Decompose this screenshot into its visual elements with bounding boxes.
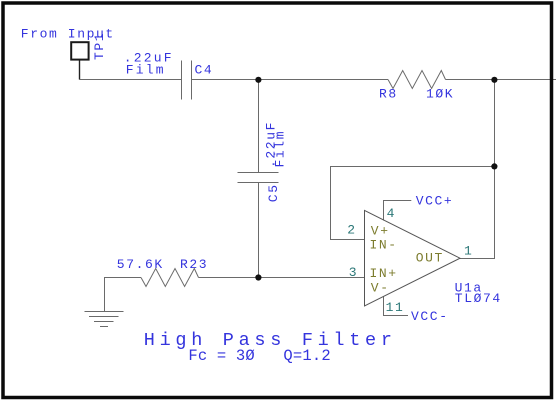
wire feedback IN- loop [331, 167, 495, 240]
svg-text:OUT: OUT [416, 251, 444, 266]
testpoint TP1 [71, 42, 88, 59]
svg-text:TLØ74: TLØ74 [455, 291, 502, 306]
svg-text:4: 4 [387, 206, 396, 221]
wire TP1 stub [79, 61, 81, 80]
svg-text:IN-: IN- [370, 238, 398, 253]
svg-text:11: 11 [386, 300, 405, 315]
wire C4 to R8 [192, 79, 389, 81]
wire C5 to IN+ net [258, 183, 260, 278]
svg-text:V+: V+ [371, 223, 390, 238]
resistor R23 [141, 269, 199, 287]
node junction C5/R23/IN+ [255, 274, 261, 280]
svg-text:2: 2 [347, 223, 356, 238]
wire R8 to right edge [446, 79, 556, 81]
wire node to C5 [258, 80, 260, 173]
svg-text:1: 1 [464, 244, 473, 259]
wire ground to R23 [105, 278, 142, 312]
svg-text:High Pass Filter: High Pass Filter [144, 330, 397, 351]
svg-text:V-: V- [371, 280, 390, 295]
ground [85, 312, 124, 327]
svg-text:Film: Film [273, 130, 288, 168]
svg-text:VCC+: VCC+ [416, 193, 454, 208]
svg-text:C4: C4 [195, 63, 214, 78]
svg-text:1ØK: 1ØK [426, 86, 454, 101]
wire R23 to IN+ pin 3 [199, 277, 365, 279]
svg-text:VCC-: VCC- [411, 309, 449, 324]
svg-text:R23: R23 [180, 257, 208, 272]
svg-text:TP1: TP1 [92, 32, 107, 60]
op-amp U1a [365, 210, 461, 306]
wire OUT pin 1 stub [460, 258, 496, 260]
svg-text:IN+: IN+ [370, 266, 398, 281]
svg-text:Film: Film [126, 63, 166, 78]
capacitor C5 [238, 173, 279, 183]
svg-text:C5: C5 [266, 183, 281, 202]
svg-text:57.6K: 57.6K [117, 257, 164, 272]
wire pin 11 VCC- stub [384, 296, 409, 315]
resistor R8 [388, 71, 446, 89]
svg-text:Q=1.2: Q=1.2 [283, 347, 331, 365]
wire TP1 to C4 [79, 79, 182, 81]
wire pin 4 VCC+ stub [384, 201, 412, 221]
node junction top right [491, 77, 497, 83]
node junction feedback [491, 163, 497, 169]
capacitor C4 [182, 61, 192, 100]
node junction C4/R8/C5 [255, 77, 261, 83]
svg-text:R8: R8 [379, 86, 398, 101]
svg-text:3: 3 [349, 265, 358, 280]
wire output vertical [494, 80, 496, 259]
svg-text:Fc = 3Ø: Fc = 3Ø [188, 347, 255, 365]
